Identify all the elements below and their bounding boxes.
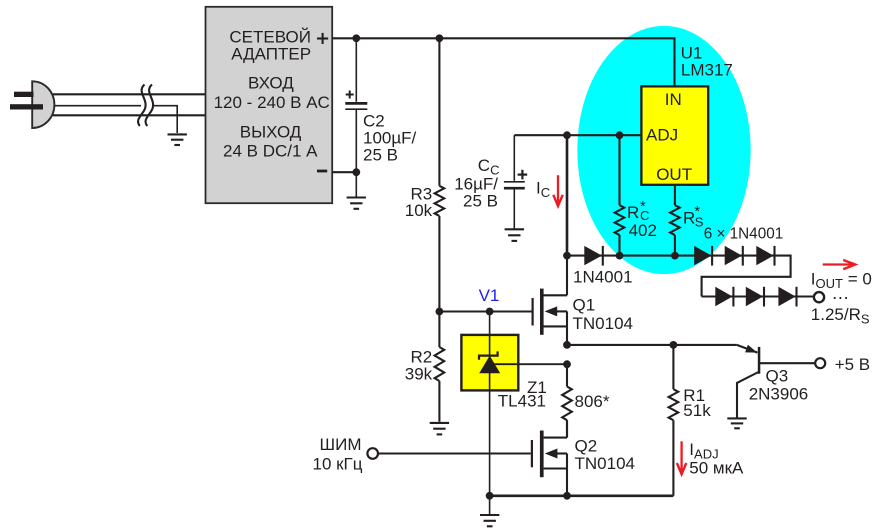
C2 value label xyxy=(363,112,417,165)
R2 label xyxy=(405,347,433,383)
IADJ label xyxy=(689,440,744,477)
wire ground stub xyxy=(489,496,491,514)
wire bottom rail xyxy=(490,494,674,497)
svg-text:Q2: Q2 xyxy=(575,436,598,455)
diode D1 1N4001 xyxy=(584,246,603,266)
svg-text:2N3906: 2N3906 xyxy=(749,384,809,403)
U1 pin labels IN / ADJ / OUT xyxy=(646,90,692,184)
resistor RS xyxy=(670,186,680,256)
ground (Q3) xyxy=(727,418,746,428)
node dot xyxy=(670,341,678,349)
+5V terminal xyxy=(815,358,825,368)
Z1 label xyxy=(498,378,547,411)
wire diode row 2 xyxy=(702,295,813,297)
svg-text:Q3: Q3 xyxy=(766,366,789,385)
wire PWM to Q2 gate xyxy=(379,452,531,454)
diode D4 xyxy=(756,246,774,266)
capacitor C2 xyxy=(345,38,367,197)
U1 designator xyxy=(681,44,733,80)
svg-text:OUT: OUT xyxy=(656,165,692,184)
wire cord top xyxy=(53,93,206,95)
node dot xyxy=(563,131,571,139)
node dot xyxy=(486,492,494,500)
transistor Q1 TN0104 xyxy=(532,256,568,345)
svg-text:24 В DC/1 А: 24 В DC/1 А xyxy=(223,141,318,160)
AC plug P1 xyxy=(10,81,54,128)
transistor Q2 TN0104 xyxy=(531,420,567,496)
cord break symbol xyxy=(138,85,153,127)
svg-text:ВХОД: ВХОД xyxy=(248,73,294,92)
output terminal xyxy=(814,292,824,302)
ground (cord) xyxy=(168,134,187,145)
svg-text:806*: 806* xyxy=(575,392,610,411)
node dot xyxy=(671,252,679,260)
ground (bottom) xyxy=(480,515,499,526)
svg-text:ADJ: ADJ xyxy=(646,126,678,145)
node dot xyxy=(616,252,624,260)
output red arrow xyxy=(823,260,856,269)
svg-text:LM317: LM317 xyxy=(681,60,733,79)
wire top rail to IN xyxy=(332,38,674,86)
R3 label xyxy=(405,184,433,220)
node dot xyxy=(563,360,571,368)
svg-text:Q1: Q1 xyxy=(573,296,596,315)
node dot xyxy=(563,341,571,349)
svg-text:25 В: 25 В xyxy=(463,192,498,211)
node dot xyxy=(486,308,494,316)
wire cord bottom xyxy=(53,114,206,116)
svg-text:ШИМ: ШИМ xyxy=(320,435,362,454)
PWM input terminal xyxy=(367,448,378,459)
resistor R3 xyxy=(435,38,445,311)
wire IC vertical xyxy=(566,135,569,255)
svg-text:16µF/: 16µF/ xyxy=(454,174,498,193)
PWM label xyxy=(312,435,362,473)
transistor Q3 2N3906 xyxy=(737,345,815,418)
adapter minus terminal xyxy=(317,170,327,173)
node dot xyxy=(436,308,444,316)
RC label xyxy=(627,199,657,240)
ground (CC) xyxy=(505,229,524,241)
current arrow IADJ xyxy=(677,441,686,474)
highlight ellipse xyxy=(577,26,750,274)
diode D3 xyxy=(725,246,743,266)
ground (R2) xyxy=(430,423,449,435)
svg-text:25 В: 25 В xyxy=(363,145,398,164)
Q2 label xyxy=(575,436,635,473)
Q3 label xyxy=(749,366,809,403)
svg-text:TN0104: TN0104 xyxy=(573,314,633,333)
capacitor CC xyxy=(504,135,527,229)
diode D5 xyxy=(715,287,733,307)
wire ADJ net xyxy=(514,134,641,136)
shunt regulator Z1 TL431 xyxy=(489,312,491,496)
adapter plus terminal xyxy=(317,33,328,44)
svg-text:TN0104: TN0104 xyxy=(575,454,635,473)
R1 label xyxy=(683,386,711,420)
svg-text:…: … xyxy=(831,283,849,303)
diode D2 xyxy=(694,246,712,266)
svg-text:S: S xyxy=(695,215,704,230)
resistor RC xyxy=(615,135,625,255)
node dot xyxy=(563,492,571,500)
diode D7 xyxy=(778,287,796,307)
svg-text:39k: 39k xyxy=(405,364,433,383)
ground (C2) xyxy=(347,198,366,209)
node dot xyxy=(436,34,444,42)
wire cord middle xyxy=(54,105,141,107)
svg-text:АДАПТЕР: АДАПТЕР xyxy=(231,44,311,63)
wire V1 gate net xyxy=(439,310,531,312)
svg-text:10 кГц: 10 кГц xyxy=(312,454,362,473)
resistor R2 xyxy=(435,312,445,422)
svg-text:TL431: TL431 xyxy=(498,392,546,411)
svg-text:ВЫХОД: ВЫХОД xyxy=(240,123,302,142)
resistor 806 xyxy=(562,364,572,437)
wire Q1 source to Q3 xyxy=(567,344,737,346)
svg-text:120 - 240 В AC: 120 - 240 В AC xyxy=(214,93,330,112)
wire diode row 1 xyxy=(567,256,791,297)
CC value label xyxy=(454,156,499,211)
svg-text:1N4001: 1N4001 xyxy=(573,267,633,286)
current arrow IC xyxy=(553,175,562,206)
resistor R1 xyxy=(669,345,679,496)
regulator U1 LM317 xyxy=(641,86,708,184)
node dot xyxy=(616,131,624,139)
svg-text:R: R xyxy=(627,203,639,222)
svg-text:50 мкА: 50 мкА xyxy=(689,459,744,478)
RS label xyxy=(683,204,704,230)
Q1 label xyxy=(573,296,633,333)
svg-text:51k: 51k xyxy=(683,401,711,420)
svg-text:10k: 10k xyxy=(405,201,433,220)
node dot xyxy=(352,168,360,176)
power adapter module xyxy=(206,7,333,203)
node dot xyxy=(352,34,360,42)
node dot xyxy=(563,252,571,260)
svg-text:+5 В: +5 В xyxy=(835,355,870,374)
svg-text:IN: IN xyxy=(665,90,682,109)
svg-text:6 × 1N4001: 6 × 1N4001 xyxy=(704,225,784,242)
svg-text:402: 402 xyxy=(629,221,657,240)
Z1 ref wire xyxy=(490,363,567,365)
wire adapter minus xyxy=(332,171,356,173)
svg-text:V1: V1 xyxy=(479,286,500,305)
diode D6 xyxy=(746,287,764,307)
